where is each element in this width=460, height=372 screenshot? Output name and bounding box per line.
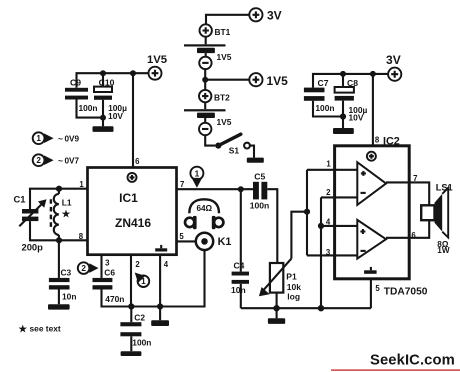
svg-text:★: ★ (19, 324, 28, 335)
wire 1V5 rail left (77, 73, 149, 88)
node C10 top junction (100, 70, 106, 86)
capacitor C1 variable (14, 194, 47, 253)
svg-text:C5: C5 (254, 171, 265, 181)
wire C9 bottom (77, 100, 104, 118)
capacitor C10 (94, 78, 127, 121)
svg-text:1V5: 1V5 (217, 52, 232, 62)
svg-text:2: 2 (36, 156, 41, 165)
wire IC2 pin 8 drop (372, 74, 374, 146)
capacitor C6 (93, 268, 125, 304)
wire IC2 pin 1 (307, 159, 357, 169)
wire IC2 pin 7 to LS1 (386, 174, 429, 205)
jack K1 (196, 233, 232, 250)
wire pin1-pin3 vertical (304, 170, 310, 256)
svg-text:2: 2 (81, 264, 86, 273)
wire IC2 pin 6 to LS1 (386, 220, 429, 240)
wire BT2 to S1 (205, 135, 215, 145)
svg-text:200p: 200p (22, 242, 44, 253)
svg-text:see text: see text (30, 323, 61, 333)
svg-text:100n: 100n (315, 103, 334, 113)
pin labels IC1 (79, 157, 185, 269)
op-amp A2 (bottom) (357, 220, 386, 259)
svg-text:~: ~ (58, 133, 63, 143)
headphones 64 ohm (185, 199, 223, 229)
svg-text:4: 4 (326, 218, 331, 227)
wire IC1 pin 4 drop (159, 255, 161, 321)
svg-text:~: ~ (58, 155, 63, 165)
wire P1 wiper riser (291, 212, 307, 259)
wire tank top (pin 1) (30, 186, 88, 209)
wire C5 to P1 top (267, 189, 277, 263)
svg-text:C7: C7 (318, 78, 329, 88)
svg-text:100n: 100n (132, 338, 151, 348)
speaker LS1 (421, 182, 452, 255)
svg-text:3V: 3V (267, 8, 282, 22)
svg-text:5: 5 (179, 232, 184, 241)
terminal 1V5 mid (249, 73, 288, 88)
ground under S1 (247, 158, 264, 163)
wire L1 node to C3 (58, 240, 60, 278)
capacitor C7 (304, 78, 335, 113)
svg-text:1V5: 1V5 (147, 54, 167, 66)
ground under C10 (93, 126, 114, 132)
wire 3V rail right (313, 74, 388, 88)
capacitor C9 (65, 78, 98, 113)
inductor L1 (51, 189, 72, 241)
wire IC1 pin 5 to K1 (177, 240, 196, 242)
node pointer 2 (0V7) (33, 154, 80, 166)
wire C4 to bus (240, 284, 242, 308)
svg-text:8: 8 (375, 136, 380, 145)
switch S1 (215, 134, 250, 155)
wire C7 C8 bottoms (313, 101, 346, 128)
svg-text:10V: 10V (349, 112, 364, 122)
node pointer 1 (0V9) (33, 132, 80, 144)
wire IC2 pin 5 to bus (371, 279, 428, 308)
svg-text:1: 1 (195, 169, 200, 178)
svg-text:6: 6 (411, 231, 416, 240)
node pointer 2 at pin 3 (78, 262, 99, 274)
svg-text:C3: C3 (61, 268, 72, 278)
svg-text:BT2: BT2 (214, 92, 230, 102)
ground under pin 4 node (151, 320, 169, 326)
svg-text:10n: 10n (231, 285, 246, 295)
svg-text:C1: C1 (14, 194, 26, 205)
wire C10 bottom (100, 100, 106, 127)
wire IC1 pin 2 drop (130, 255, 132, 307)
capacitor C3 (49, 268, 77, 302)
terminal 3V top (249, 8, 281, 22)
wire pin2-pin4 vertical (318, 197, 324, 308)
wire IC1 pin 6 drop (132, 73, 134, 167)
wire C3 to ground (58, 290, 60, 305)
svg-text:C10: C10 (99, 78, 115, 88)
svg-text:C8: C8 (347, 78, 358, 88)
svg-text:TDA7050: TDA7050 (384, 286, 428, 297)
wire K1 to bottom node (128, 250, 204, 310)
svg-text:ZN416: ZN416 (115, 216, 151, 230)
capacitor C8 (335, 78, 368, 122)
svg-text:0V7: 0V7 (65, 156, 80, 165)
svg-text:100n: 100n (250, 200, 270, 210)
svg-text:1W: 1W (437, 246, 450, 255)
svg-text:7: 7 (180, 180, 184, 189)
svg-text:10n: 10n (62, 292, 76, 302)
svg-text:1V5: 1V5 (217, 117, 232, 127)
capacitor C5 (250, 171, 270, 210)
svg-text:C6: C6 (104, 268, 115, 278)
wire S1 to ground (250, 146, 254, 158)
svg-text:10k: 10k (287, 282, 301, 292)
svg-text:1: 1 (326, 159, 331, 168)
op-amp IC1 box (88, 168, 177, 255)
svg-text:3: 3 (326, 248, 331, 257)
battery BT2 (184, 90, 232, 135)
svg-text:C2: C2 (134, 312, 145, 322)
wire IC1 pin 3 drop (100, 255, 102, 278)
node pointer 1 at pin 2 (135, 273, 150, 288)
svg-text:1: 1 (36, 134, 41, 143)
svg-text:4: 4 (164, 260, 169, 269)
svg-text:IC2: IC2 (383, 135, 400, 147)
svg-text:3: 3 (105, 259, 110, 268)
wire C6 bottom to node (102, 290, 132, 307)
wire 3V to BT1 (206, 15, 250, 24)
terminal 3V right (386, 53, 401, 81)
svg-text:LS1: LS1 (436, 182, 453, 192)
svg-text:100n: 100n (78, 103, 97, 113)
svg-text:6: 6 (135, 157, 140, 166)
svg-text:3V: 3V (386, 53, 401, 67)
wire BT1 to BT2 (202, 69, 249, 90)
svg-text:64Ω: 64Ω (196, 204, 212, 213)
svg-text:7: 7 (413, 174, 417, 183)
wire IC2 pin 3 (307, 248, 357, 257)
node pin8 (370, 71, 376, 77)
wire P1 bottom to bus (276, 293, 278, 309)
ground under C2 (121, 351, 142, 356)
node C8 top (340, 71, 346, 87)
op-amp IC2 box (335, 135, 410, 278)
svg-text:SeekIC.com: SeekIC.com (370, 352, 455, 368)
wire ground bus (241, 305, 371, 311)
svg-text:IC1: IC1 (119, 191, 138, 205)
node pointer 1 above pin 7 wire (190, 167, 203, 188)
capacitor C2 (120, 307, 151, 348)
power symbol inside IC2 (367, 152, 376, 161)
ground inside IC1 (155, 245, 167, 252)
wire C2 to ground (130, 336, 132, 351)
svg-text:1: 1 (79, 180, 84, 189)
svg-text:1V5: 1V5 (267, 74, 289, 88)
svg-text:S1: S1 (229, 146, 240, 156)
wire junction to C4 (240, 189, 242, 271)
power symbol inside IC1 (128, 173, 137, 182)
svg-text:5: 5 (375, 284, 380, 293)
watermark SeekIC.com (370, 352, 455, 368)
svg-text:2: 2 (135, 260, 140, 269)
node pin6 junction (130, 70, 136, 76)
battery BT1 (184, 24, 232, 69)
wire IC2 pin 2 (321, 188, 357, 197)
svg-text:470n: 470n (105, 294, 124, 304)
svg-text:BT1: BT1 (215, 27, 231, 37)
potentiometer P1 (259, 259, 301, 302)
ground under C8 (333, 128, 354, 134)
wire IC2 pin 4 (321, 218, 357, 227)
ground under C3 (48, 304, 70, 309)
red footer line (331, 369, 460, 371)
capacitor C4 (231, 261, 249, 296)
op-amp A1 (top) (357, 162, 386, 205)
svg-text:2: 2 (326, 188, 331, 197)
wire IC1 pin 7 to C5 (177, 186, 254, 192)
svg-text:10V: 10V (108, 111, 123, 121)
svg-text:L1: L1 (62, 197, 72, 207)
ground under P1 (268, 308, 285, 324)
svg-text:C4: C4 (234, 261, 245, 271)
svg-text:K1: K1 (218, 236, 232, 248)
wire tank bottom (pin 8) (30, 221, 88, 243)
note see text (19, 323, 61, 335)
svg-text:★: ★ (62, 209, 71, 220)
svg-text:log: log (287, 292, 300, 302)
svg-text:0V9: 0V9 (65, 134, 80, 143)
svg-text:P1: P1 (286, 271, 297, 281)
ground inside IC2 (364, 267, 377, 274)
svg-text:C9: C9 (70, 78, 81, 88)
terminal 1V5 left (147, 54, 167, 80)
